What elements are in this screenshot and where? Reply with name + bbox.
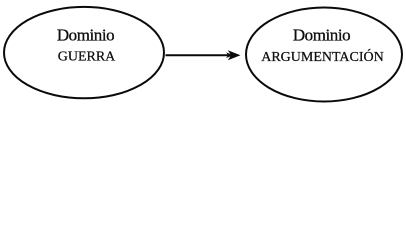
arrow: head inner chevron [226, 52, 233, 58]
arrow: head [228, 50, 241, 60]
svg-text:GUERRA: GUERRA [58, 50, 116, 65]
svg-text:Dominio: Dominio [293, 26, 350, 45]
svg-text:Dominio: Dominio [57, 26, 114, 45]
arrow: left node to right node (shaft) [166, 54, 233, 56]
ellipse: Dominio ARGUMENTACION (right node) [246, 8, 402, 102]
ellipse: Dominio GUERRA (left node) [4, 7, 164, 98]
svg-text:ARGUMENTACIÓN: ARGUMENTACIÓN [261, 48, 384, 65]
